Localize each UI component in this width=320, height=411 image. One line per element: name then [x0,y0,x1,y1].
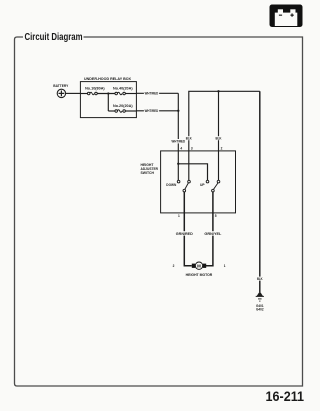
svg-text:2: 2 [173,264,175,268]
svg-text:BLK: BLK [257,277,263,281]
svg-text:GRN/YEL: GRN/YEL [204,232,221,236]
svg-text:1: 1 [224,264,226,268]
svg-text:SWITCH: SWITCH [141,171,155,175]
svg-text:WHT/RED: WHT/RED [145,92,159,96]
svg-text:GRN/RED: GRN/RED [176,232,194,236]
svg-text:2: 2 [221,147,223,151]
svg-text:WHT/RED: WHT/RED [145,109,159,113]
svg-text:HEIGHT MOTOR: HEIGHT MOTOR [186,273,213,277]
svg-text:4: 4 [180,147,182,151]
svg-text:Circuit Diagram: Circuit Diagram [25,32,83,43]
svg-text:5: 5 [215,214,217,218]
svg-text:1: 1 [178,214,180,218]
svg-text:BLK: BLK [186,137,193,141]
svg-text:BATTERY: BATTERY [53,84,69,88]
svg-text:3: 3 [191,147,193,151]
svg-text:DOWN: DOWN [166,183,177,187]
svg-text:UP: UP [200,183,205,187]
svg-text:16-211: 16-211 [266,388,305,404]
svg-text:UNDER-HOOD RELAY BOX: UNDER-HOOD RELAY BOX [84,77,132,81]
svg-text:No.20(20A): No.20(20A) [113,104,133,108]
svg-text:M: M [197,264,201,269]
svg-text:BLK: BLK [216,137,223,141]
svg-text:G402: G402 [256,307,264,311]
svg-text:No.10(80A): No.10(80A) [85,87,105,91]
svg-text:No.40(20A): No.40(20A) [113,87,133,91]
svg-text:WHT/RED: WHT/RED [172,140,186,144]
